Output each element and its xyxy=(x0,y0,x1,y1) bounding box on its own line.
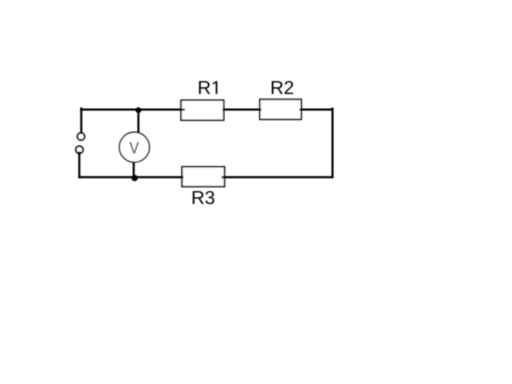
wire left vertical lower xyxy=(78,152,80,179)
junction node top xyxy=(136,107,142,113)
terminal upper (open circle) xyxy=(77,133,84,140)
wire voltmeter top lead xyxy=(137,109,139,133)
junction node bottom xyxy=(131,175,137,181)
resistor R3 xyxy=(182,167,225,187)
voltmeter U1 xyxy=(119,132,149,162)
wire top rail left segment xyxy=(80,109,185,111)
wire top rail middle segment xyxy=(223,109,262,111)
wire top rail right segment xyxy=(299,109,333,111)
resistor R2 xyxy=(260,99,302,119)
wire bottom rail right segment xyxy=(222,176,334,178)
wire voltmeter bottom lead xyxy=(133,161,135,178)
wire left vertical upper xyxy=(80,107,82,132)
terminal lower (open circle) xyxy=(76,146,83,153)
label R3 xyxy=(193,191,215,204)
label R1 xyxy=(199,81,217,94)
label R2 xyxy=(272,81,293,94)
wire right vertical xyxy=(331,108,333,179)
resistor R1 xyxy=(181,100,224,120)
wire bottom rail left segment xyxy=(78,176,183,178)
